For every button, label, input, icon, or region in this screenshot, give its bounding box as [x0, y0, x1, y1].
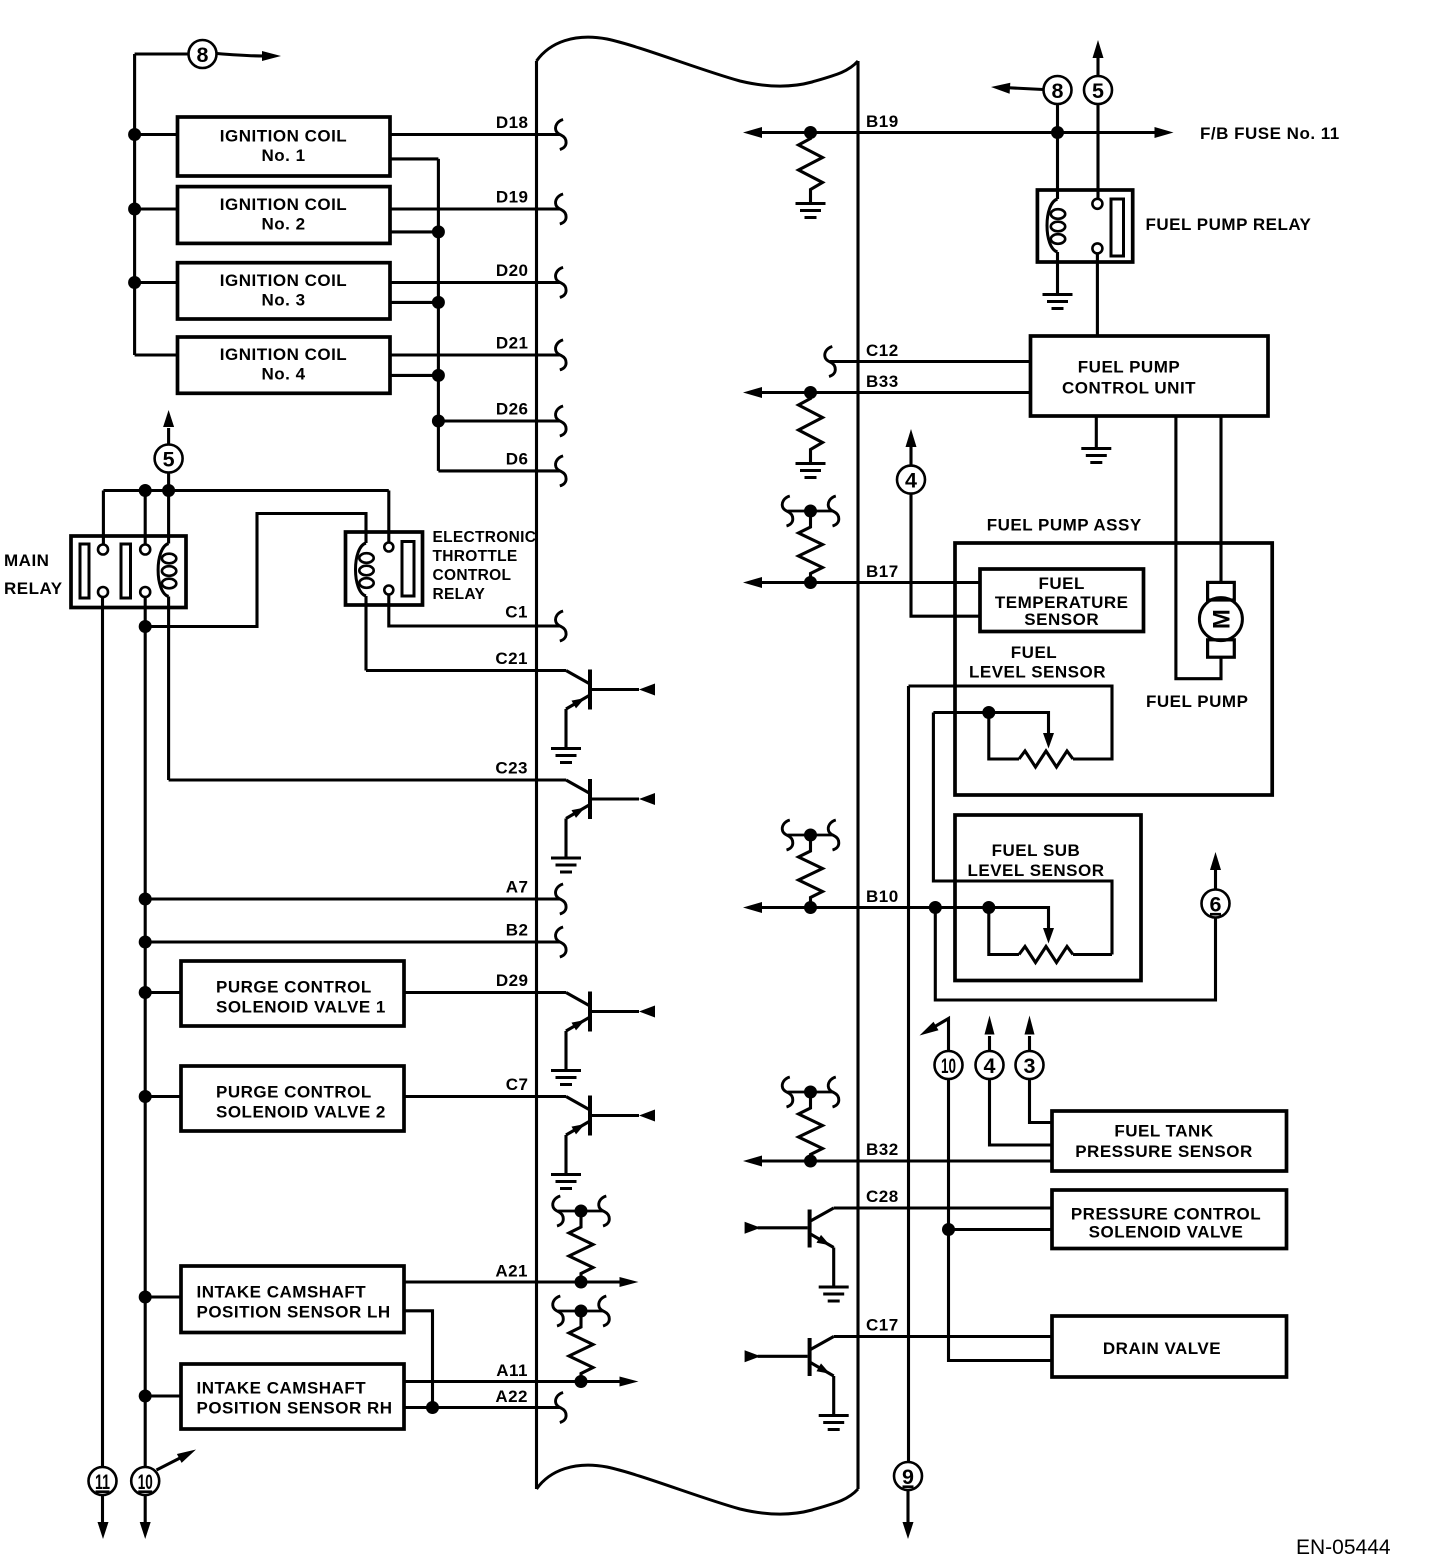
relay FUEL PUMP RELAY pin circles: [1092, 199, 1102, 209]
svg-text:POSITION SENSOR LH: POSITION SENSOR LH: [197, 1303, 391, 1322]
wire main relay pin4 down left distribution bus: [144, 597, 147, 1467]
svg-text:No. 4: No. 4: [261, 365, 305, 384]
relay FUEL PUMP RELAY box: [1037, 190, 1132, 262]
resistor pull-up at pin B10 with connector squiggles: [788, 834, 834, 837]
svg-text:4: 4: [984, 1054, 996, 1078]
wire circle 10 down to solenoid/drain valve returns: [949, 1080, 1053, 1361]
resistor pull-up at pin A21 with connector squiggles: [558, 1210, 604, 1213]
wire arrow from circle 8 pointing right: [217, 54, 264, 57]
svg-text:D20: D20: [496, 261, 529, 280]
wire circle 5 down to relay feed bus: [167, 474, 170, 491]
svg-text:ELECTRONIC: ELECTRONIC: [433, 529, 537, 546]
resistor inside ECM at pin B33 with ground: [799, 393, 823, 463]
wire ignition coil No.3 signal to ECM: [390, 281, 561, 284]
motor fuel pump brush block top: [1208, 582, 1235, 600]
wire circle 4 arrow up: [988, 1036, 991, 1051]
relay ELECTRONIC THROTTLE CONTROL RELAY box: [346, 532, 423, 605]
wire feed down to main relay pin 2: [144, 491, 147, 545]
relay ETC relay contact blade: [402, 542, 414, 597]
svg-text:M: M: [1208, 609, 1235, 629]
wire purge valve 2 to pin C7: [404, 1095, 566, 1098]
node circle 8 (page link, right): [1044, 76, 1072, 104]
svg-text:B33: B33: [866, 372, 899, 391]
wire feed down to main relay pin 1: [102, 491, 105, 545]
svg-text:B19: B19: [866, 112, 899, 131]
relay MAIN RELAY box: [71, 536, 186, 608]
svg-text:SOLENOID VALVE: SOLENOID VALVE: [1089, 1223, 1244, 1242]
relay MAIN RELAY pin circles: [98, 545, 108, 555]
wire ignition coil No.1 to common return bus: [390, 157, 438, 160]
svg-text:PURGE CONTROL: PURGE CONTROL: [216, 1083, 372, 1102]
svg-text:A21: A21: [495, 1262, 528, 1281]
wire ETC relay coil to pin C21: [364, 596, 367, 671]
resistor pull-up at pin A11 with connector squiggles: [558, 1310, 604, 1313]
relay FUEL PUMP RELAY coil: [1047, 199, 1058, 252]
wire ignition coil No.3 left feed: [135, 281, 178, 284]
wire pressure control solenoid valve return: [949, 1228, 1053, 1231]
connector squiggle at pin D18: [556, 120, 567, 150]
wire fuel temperature sensor return to circle 4: [911, 494, 980, 616]
wire ECM torn top edge: [537, 37, 859, 86]
svg-text:LEVEL SENSOR: LEVEL SENSOR: [968, 861, 1105, 880]
svg-text:C21: C21: [495, 649, 528, 668]
ignition coil No.1 box: [178, 117, 391, 176]
wire circle 8 down to B19: [1056, 105, 1059, 133]
wire control unit to fuel pump motor negative: [1176, 416, 1221, 679]
node ECM left boundary line: [535, 61, 538, 1489]
wire camshaft sensor LH feed: [145, 1295, 181, 1298]
svg-text:PURGE CONTROL: PURGE CONTROL: [216, 978, 372, 997]
node circle 9 (page link bottom right): [894, 1462, 922, 1490]
wire left supply bus for ignition coils: [133, 54, 136, 355]
component PURGE CONTROL SOLENOID VALVE 1 box: [181, 961, 404, 1026]
wire control unit to fuel pump motor positive: [1219, 416, 1222, 582]
transistor Q2 (main relay driver): [566, 780, 590, 794]
relay ETC relay pin circles: [384, 543, 393, 552]
svg-text:C28: C28: [866, 1187, 899, 1206]
connector squiggle at pin D26: [556, 406, 567, 436]
wire pin B19 to F/B fuse No.11: [760, 131, 1156, 134]
resistor inside ECM at pin B19 with ground: [799, 133, 823, 203]
node circle 5 (page link, right): [1084, 76, 1112, 104]
motor fuel pump brush block bottom: [1208, 640, 1235, 657]
svg-text:A7: A7: [506, 878, 529, 897]
wire ETC relay coil feed jog to distribution bus: [145, 514, 366, 627]
svg-text:SOLENOID VALVE 1: SOLENOID VALVE 1: [216, 997, 386, 1016]
node circle 10 (page link bottom): [131, 1467, 159, 1495]
wire pin B33 to control unit: [760, 391, 1031, 394]
svg-text:FUEL: FUEL: [1011, 643, 1057, 662]
relay MAIN RELAY coil: [158, 544, 169, 597]
wire purge valve 2 feed: [145, 1095, 181, 1098]
wire circle 6 arrow up: [1214, 870, 1217, 890]
wire camshaft sensor LH lower output to A22 junction: [404, 1311, 433, 1408]
wire fuel level sensor wiper feed: [933, 713, 1048, 734]
svg-text:INTAKE CAMSHAFT: INTAKE CAMSHAFT: [197, 1283, 367, 1302]
wire circle 3 down to pressure sensor: [1030, 1080, 1053, 1123]
component FUEL PUMP ASSY box: [955, 543, 1272, 795]
node circle 3 (page link): [1016, 1051, 1044, 1079]
wire pin B2 from distribution bus: [145, 940, 560, 943]
connector squiggle at pin C12: [825, 347, 836, 377]
wire fuel pump relay coil feed from B19: [1056, 133, 1059, 200]
node circle 8 (page link, top left): [189, 40, 217, 68]
wire ignition coil common return bus: [437, 159, 440, 471]
wire ECM torn bottom edge: [537, 1465, 859, 1514]
wire pin D6 to ECM: [438, 469, 560, 472]
relay FUEL PUMP RELAY contact blade: [1111, 199, 1124, 256]
resistor pull-up at pin B17 with connector squiggles: [788, 510, 834, 513]
wire ignition coil No.2 left feed: [135, 207, 178, 210]
transistor Q6 (drain valve driver): [810, 1337, 834, 1351]
wire pin B10 to sub level sensor wiper: [760, 908, 1049, 929]
connector squiggle at pin D6: [556, 456, 567, 486]
ignition coil No.4 box: [178, 337, 391, 393]
svg-text:C7: C7: [506, 1075, 529, 1094]
wire fuel pump relay coil to ground: [1056, 252, 1059, 294]
wire from left bus to circle 8: [135, 52, 188, 55]
svg-text:10: 10: [941, 1055, 956, 1078]
node circle 4 (page link, fuel tank pressure): [976, 1051, 1004, 1079]
wire pin C23 to transistor Q2: [169, 778, 566, 781]
connector squiggle at pin D21: [556, 340, 567, 370]
svg-text:INTAKE CAMSHAFT: INTAKE CAMSHAFT: [197, 1379, 367, 1398]
svg-text:No. 3: No. 3: [261, 290, 305, 309]
resistor fuel level sensor track: [1019, 751, 1073, 767]
wire diagonal arrow from circle 10: [157, 1458, 182, 1471]
ignition coil No.3 box: [178, 263, 391, 319]
svg-text:CONTROL: CONTROL: [433, 567, 512, 584]
wire ignition coil No.1 left feed: [135, 133, 178, 136]
svg-text:IGNITION COIL: IGNITION COIL: [220, 195, 347, 214]
wire fuel level sensor left leg: [989, 713, 1019, 760]
component INTAKE CAMSHAFT POSITION SENSOR RH box: [181, 1364, 404, 1429]
svg-text:EN-05444: EN-05444: [1296, 1536, 1391, 1559]
svg-text:No. 2: No. 2: [261, 215, 305, 234]
svg-text:IGNITION COIL: IGNITION COIL: [220, 127, 347, 146]
wire circle 5 arrow up: [1096, 58, 1099, 76]
svg-text:No. 1: No. 1: [261, 146, 305, 165]
wire circle 3 arrow up: [1028, 1036, 1031, 1051]
ground fuel pump relay coil: [1043, 293, 1073, 296]
svg-text:5: 5: [163, 448, 175, 472]
wire pin C12 to control unit: [830, 360, 1031, 363]
svg-text:PRESSURE CONTROL: PRESSURE CONTROL: [1071, 1205, 1261, 1224]
svg-text:B32: B32: [866, 1140, 899, 1159]
svg-text:CONTROL UNIT: CONTROL UNIT: [1062, 379, 1196, 398]
component INTAKE CAMSHAFT POSITION SENSOR LH box: [181, 1266, 404, 1333]
svg-text:RELAY: RELAY: [433, 586, 486, 603]
wire pin D26 to ECM: [438, 419, 560, 422]
node ECM right boundary line: [856, 61, 859, 1489]
node circle 4 (page link, fuel temp sensor): [909, 447, 912, 465]
svg-text:LEVEL SENSOR: LEVEL SENSOR: [969, 663, 1106, 682]
resistor fuel sub level sensor track: [1019, 947, 1073, 963]
wire pin A22 common signal return: [404, 1406, 561, 1409]
wire circle 9 arrow down: [906, 1490, 909, 1522]
wire sub level sensor right leg: [1073, 953, 1112, 956]
wire relay feed bus (horizontal): [103, 489, 388, 492]
svg-text:MAIN: MAIN: [4, 551, 49, 570]
component PURGE CONTROL SOLENOID VALVE 2 box: [181, 1066, 404, 1131]
wire feed down to throttle relay contact: [387, 491, 390, 543]
connector squiggle at pin D20: [556, 267, 567, 297]
component FUEL SUB LEVEL SENSOR box: [955, 815, 1141, 981]
wire pin C17 to drain valve: [834, 1335, 1052, 1338]
svg-text:FUEL TANK: FUEL TANK: [1114, 1122, 1213, 1141]
wire purge valve 1 to pin D29: [404, 991, 566, 994]
svg-text:FUEL PUMP: FUEL PUMP: [1146, 692, 1248, 711]
connector squiggle at pin B2: [556, 927, 567, 957]
wire ignition coil No.3 to common return bus: [390, 301, 438, 304]
svg-text:D19: D19: [496, 188, 529, 207]
svg-text:A11: A11: [496, 1361, 528, 1380]
wire fuel level sensor right leg to return line: [909, 686, 1113, 759]
component PRESSURE CONTROL SOLENOID VALVE box: [1052, 1190, 1287, 1249]
component FUEL PUMP CONTROL UNIT box: [1031, 336, 1269, 416]
svg-text:D21: D21: [496, 333, 529, 352]
wire pin B17 to fuel temperature sensor: [760, 581, 980, 584]
svg-text:B10: B10: [866, 887, 899, 906]
connector squiggle at pin A7: [556, 884, 567, 914]
relay MAIN RELAY contact blade 1: [80, 544, 89, 598]
svg-text:3: 3: [1024, 1054, 1036, 1078]
svg-text:D18: D18: [496, 113, 529, 132]
svg-text:C1: C1: [505, 603, 528, 622]
wire ignition coil No.1 signal to ECM: [390, 133, 561, 136]
svg-text:FUEL PUMP ASSY: FUEL PUMP ASSY: [987, 516, 1142, 535]
wire purge valve 1 feed: [145, 991, 181, 994]
svg-text:DRAIN VALVE: DRAIN VALVE: [1103, 1339, 1221, 1358]
node circle 6 (page link): [1202, 890, 1230, 918]
wire sub level sensor left leg: [989, 908, 1019, 955]
wire ETC relay contact to pin C1: [389, 595, 561, 627]
connector squiggle at pin C1: [556, 611, 567, 641]
svg-text:C23: C23: [495, 759, 528, 778]
transistor Q4 (purge valve 2 driver): [566, 1097, 590, 1111]
svg-text:D26: D26: [496, 400, 529, 419]
wire series link main level sensor to sub level sensor: [933, 713, 1112, 955]
wire feed down to main relay coil: [167, 491, 170, 544]
svg-text:8: 8: [197, 43, 209, 67]
wire pin A11 with arrow into ECM: [404, 1380, 628, 1383]
wire ignition coil No.2 to common return bus: [390, 230, 438, 233]
svg-text:POSITION SENSOR RH: POSITION SENSOR RH: [197, 1399, 393, 1418]
svg-text:THROTTLE: THROTTLE: [433, 548, 518, 565]
wire pin A7 from distribution bus: [145, 897, 560, 900]
svg-text:A22: A22: [495, 1387, 528, 1406]
wire circle 11 arrow down: [101, 1495, 104, 1522]
wire ignition coil No.2 signal to ECM: [390, 207, 561, 210]
svg-text:IGNITION COIL: IGNITION COIL: [220, 271, 347, 290]
svg-text:D6: D6: [506, 449, 529, 468]
wire pin C28 to pressure control solenoid valve: [834, 1206, 1052, 1209]
wire circle 5 down to fuel pump relay contact: [1096, 105, 1099, 199]
svg-text:F/B FUSE No. 11: F/B FUSE No. 11: [1200, 124, 1340, 143]
svg-text:SOLENOID VALVE 2: SOLENOID VALVE 2: [216, 1102, 386, 1121]
svg-text:PRESSURE SENSOR: PRESSURE SENSOR: [1075, 1142, 1253, 1161]
transistor Q1 (ETC relay driver): [566, 671, 590, 685]
wire B10 branch down to circle 6: [935, 908, 1215, 1001]
node circle 10 (page link, right): [935, 1051, 963, 1079]
ignition coil No.2 box: [178, 187, 391, 244]
wire fuel level sensor return line down to circle 9: [907, 686, 910, 1462]
wire ignition coil No.4 left feed: [135, 353, 178, 356]
wire pin B32 to fuel tank pressure sensor: [760, 1159, 1052, 1162]
transistor Q5 (pressure control solenoid driver): [810, 1208, 834, 1222]
svg-text:B2: B2: [506, 921, 529, 940]
svg-text:D29: D29: [496, 971, 529, 990]
connector squiggle at pin D19: [556, 194, 567, 224]
svg-text:5: 5: [1092, 79, 1104, 103]
relay ETC relay coil: [356, 543, 367, 596]
wire ignition coil No.4 to common return bus: [390, 374, 438, 377]
svg-text:IGNITION COIL: IGNITION COIL: [220, 345, 347, 364]
component FUEL TEMPERATURE SENSOR box: [980, 569, 1144, 632]
svg-text:RELAY: RELAY: [4, 579, 63, 598]
svg-text:B17: B17: [866, 562, 899, 581]
svg-text:8: 8: [1052, 79, 1064, 103]
wire circle 4 down to pressure sensor: [990, 1080, 1053, 1146]
wire pin A21 with arrow into ECM: [404, 1280, 628, 1283]
node circle 5 (page link above main relay): [167, 428, 170, 444]
wire ignition coil No.4 signal to ECM: [390, 353, 561, 356]
svg-text:FUEL PUMP: FUEL PUMP: [1078, 358, 1180, 377]
svg-text:FUEL: FUEL: [1039, 574, 1085, 593]
svg-text:FUEL PUMP RELAY: FUEL PUMP RELAY: [1146, 215, 1312, 234]
wire arrow pointing left from circle 8: [1004, 88, 1043, 90]
wire fuel pump relay contact to control unit: [1096, 253, 1099, 336]
transistor Q3 (purge valve 1 driver): [566, 993, 590, 1007]
relay MAIN RELAY contact blade 2: [121, 544, 131, 598]
motor fuel pump M circle: [1199, 598, 1242, 641]
svg-text:4: 4: [905, 469, 917, 493]
ground fuel pump control unit: [1081, 447, 1111, 450]
component FUEL TANK PRESSURE SENSOR box: [1052, 1111, 1287, 1171]
svg-text:FUEL SUB: FUEL SUB: [992, 841, 1081, 860]
svg-text:C17: C17: [866, 1316, 899, 1335]
wire control unit to ground: [1095, 416, 1098, 448]
resistor pull-up at pin B32 with connector squiggles: [788, 1091, 834, 1094]
component DRAIN VALVE box: [1052, 1316, 1287, 1377]
wire pin C21 to transistor Q1: [366, 669, 566, 672]
wire camshaft sensor RH feed: [145, 1394, 181, 1397]
wire circle 10 arrow down: [144, 1495, 147, 1522]
wire flag arrow from circle 10 right: [934, 1019, 949, 1051]
svg-text:SENSOR: SENSOR: [1024, 610, 1099, 629]
wire main relay pin3 down to circle 11: [101, 597, 104, 1467]
node circle 11 (page link bottom): [89, 1467, 117, 1495]
svg-text:C12: C12: [866, 341, 899, 360]
wire main relay coil to C23 line: [167, 597, 170, 781]
connector squiggle at pin A22: [556, 1393, 567, 1423]
